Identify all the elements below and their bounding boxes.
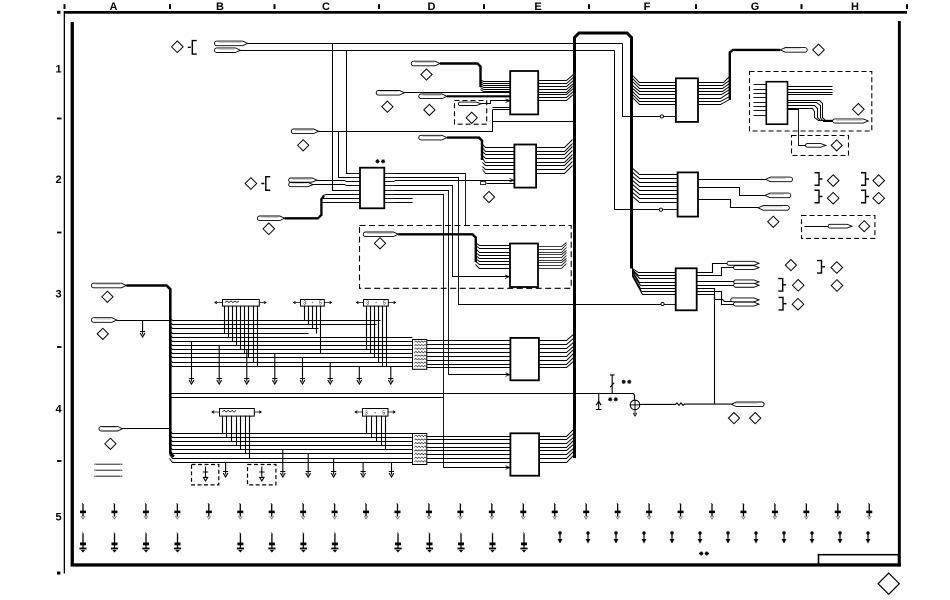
wire C2 pin2 to F3 stub [395, 178, 661, 305]
wire F3 to lug pair H3-1a [697, 264, 728, 273]
bracket-diamond pair H2-2 [861, 190, 869, 203]
E2 left wire fan [483, 145, 515, 148]
connector E5 [510, 433, 539, 475]
wire F2 to lug G2-a [699, 179, 766, 181]
F3 bottom stub with junction [661, 302, 664, 305]
diamond G1-a [813, 44, 825, 56]
connector block C3-b [356, 301, 364, 304]
wire drop column C2 [347, 51, 350, 174]
bracket-diamond pair G3-b [817, 261, 825, 274]
terminal lug G1-c [806, 144, 826, 148]
fuse symbol at F4 [596, 394, 602, 410]
wire A4 to harness [123, 428, 171, 430]
sensor circle at F4 [634, 394, 635, 401]
frame left thin border [64, 11, 65, 574]
splice block row3 [413, 340, 427, 370]
wire D1-b to E1 (thick) [447, 95, 510, 97]
column tick marks [64, 4, 66, 9]
wire under E1 to bus [493, 121, 575, 123]
ground symbol row 5a [82, 504, 83, 506]
bracket A2 [261, 177, 270, 191]
thick feeder wire to E1 fan [440, 64, 481, 88]
diamond F2 below [768, 216, 779, 227]
bus internal wire drop 1 [623, 44, 661, 117]
connector G1 inner [766, 82, 787, 125]
wire from dashed lug to E1 [482, 101, 511, 104]
diamond connector marker A2 [245, 178, 257, 190]
G1 bent wire group to lug [788, 101, 834, 121]
thick harness wire A3 [126, 286, 174, 457]
wire C2 pin5 to E4 bottom [395, 191, 511, 375]
svg-text:2: 2 [55, 174, 61, 186]
bracket-diamond pair G3-c [778, 279, 786, 292]
wire in G2 [805, 226, 829, 228]
terminal lug G2-a [766, 177, 793, 182]
connector F1 [676, 78, 698, 122]
dashed option box G2 [802, 216, 875, 239]
connector block C4 [355, 411, 363, 414]
E4 right fan to bus [539, 334, 575, 341]
diamond G4-b [750, 413, 761, 424]
E2 right fan to bus [537, 140, 573, 148]
diamond D1-c [424, 104, 435, 115]
wire F3 to lug H3-3b [697, 292, 735, 305]
terminal lug B2 double [289, 178, 317, 182]
svg-text:F: F [644, 1, 651, 13]
bracket B1 [188, 41, 197, 55]
diamond G3-a [785, 260, 796, 271]
connector F2 [678, 172, 698, 216]
terminal lug C1 [291, 129, 318, 134]
terminal lug pair H3-1 [727, 261, 759, 265]
terminal lug pair H3-3 [731, 298, 759, 302]
G1 inner right wires straight [788, 86, 833, 88]
E3 left wire fan [476, 243, 511, 246]
splice to E5 wires [427, 436, 511, 438]
connector block C3-a [293, 301, 301, 304]
corner diamond [878, 573, 899, 594]
terminal lug B1-a [215, 41, 248, 46]
diamond H3-d [831, 280, 843, 292]
wire B1-b to bus [241, 50, 615, 52]
diamond D1-a [421, 69, 432, 80]
terminal lug in G2 [828, 224, 852, 228]
wire F3 to lug H3-3a [697, 289, 732, 302]
wire C2 pin4 to E3 bottom [395, 186, 511, 277]
link symbol at F4 upper [610, 375, 615, 394]
C2 right pin stubs [385, 173, 395, 175]
wire F2 to lug G2-b [699, 188, 765, 196]
diamond A3-b [97, 328, 108, 339]
diamond D1-b [382, 101, 393, 112]
dashed ground box B5-a [192, 465, 219, 485]
terminal lug B2-b [257, 216, 284, 221]
wire C2 pin6 to E5 bottom [395, 195, 511, 468]
svg-text:3: 3 [55, 289, 61, 301]
row3 ground drops [189, 341, 194, 384]
svg-text:D: D [428, 1, 436, 13]
C2 label [375, 159, 385, 163]
terminal lug D2 feeder [419, 135, 447, 140]
dashed option box G1 [750, 72, 872, 132]
bus to F3 fan [633, 261, 676, 273]
terminal lug A3-b [91, 318, 116, 323]
legend lines A5 [96, 463, 121, 465]
bracket-diamond pair G3-e [779, 297, 787, 310]
svg-text:A: A [110, 1, 118, 13]
svg-text:H: H [851, 1, 859, 13]
long wire row4 to transistor [171, 393, 634, 395]
svg-text:E: E [534, 1, 541, 13]
frame top border [64, 11, 907, 14]
junction bus J/B outline [575, 33, 632, 458]
C2 bottom feed wires [323, 195, 361, 196]
terminal lug row3 dashed [363, 232, 398, 237]
terminal lug G4 [731, 402, 764, 407]
wire D1-a to E1 [405, 92, 511, 94]
diamond D2 [483, 191, 494, 202]
terminal lug G2-b [765, 193, 791, 198]
splice block row4 [413, 434, 427, 465]
bracket-diamond pair H2-1 [861, 173, 869, 186]
diamond G1-c [831, 140, 842, 151]
wire pair into E1 bottom [493, 107, 511, 109]
terminal lug B1-b [215, 48, 241, 53]
dashed ground box B5-b [248, 465, 276, 485]
terminal lug in dashed box D1 [458, 102, 481, 105]
diamond connector marker B1 [172, 41, 184, 53]
splice to E4 wires [427, 340, 511, 342]
G1 inner left stubs [754, 84, 767, 86]
wire F3 to lug H3-2b [697, 285, 735, 287]
bus to F1 fan [632, 75, 676, 83]
wire C2 pin8 stub [395, 202, 413, 204]
dashed option box D1 [455, 101, 487, 125]
row tick marks [57, 11, 60, 14]
diamond G4-a [728, 413, 739, 424]
connector E1 [510, 71, 538, 114]
row4 harness fan [170, 431, 413, 434]
bracket-diamond pair G2-2 [815, 190, 823, 203]
terminal lug G1-a [780, 48, 807, 53]
diamond row3 dashed [374, 238, 385, 249]
svg-text:C: C [322, 1, 330, 13]
connector E2 [514, 145, 536, 188]
F1 bottom stub with junction [660, 115, 663, 118]
E1 left wire fan [481, 80, 511, 82]
label row5 [699, 551, 709, 555]
tag on wire to E2 [481, 182, 486, 185]
svg-text:B: B [216, 1, 224, 13]
svg-text:G: G [751, 1, 760, 13]
terminal lug D1-c feeder [411, 61, 440, 66]
E5 right fan to bus [540, 429, 575, 437]
diamond in dashed box D1 [466, 112, 477, 123]
connector F3 [676, 268, 697, 310]
diamond B2-b [263, 223, 275, 235]
svg-text:5: 5 [383, 300, 386, 306]
long wire row4 short [171, 397, 444, 399]
F2 bottom stub with junction [659, 208, 662, 211]
frame thick right border [898, 21, 901, 567]
wire F3 to lug pair H3-1b [697, 268, 735, 276]
diamond A3-a [102, 291, 113, 302]
svg-text:5: 5 [55, 512, 61, 524]
diamond C1b [298, 140, 309, 151]
bus internal wire drop 2 [615, 51, 660, 210]
terminal lug D1-b [419, 94, 447, 99]
terminal lug A3-a [91, 283, 126, 288]
svg-text:4: 4 [55, 404, 62, 416]
wire F2 to lug G2-c [699, 200, 759, 208]
diamond in G2 [859, 221, 870, 232]
wires B2 to C2 box [317, 181, 361, 182]
terminal lug A4 [99, 426, 123, 431]
row3 harness fan [170, 318, 381, 321]
terminal lug G1-b [833, 119, 869, 123]
svg-text:1: 1 [55, 64, 61, 76]
connector block B3 [215, 301, 223, 304]
bus to F2 fan [632, 168, 678, 175]
connector block B4 [212, 411, 220, 414]
E3 right fan [539, 243, 567, 247]
bracket-diamond pair G2-1 [815, 173, 823, 186]
wire B1-a to bus [248, 43, 623, 45]
wire C2 pin3 to E2 [395, 180, 515, 182]
wire C1 to E1 [319, 110, 493, 132]
component C2 box [360, 168, 384, 209]
thick feeder to E2 fan [447, 138, 482, 160]
thick riser wire to lug G1 [730, 50, 781, 100]
C2 left pin stubs [350, 173, 361, 175]
diamond A4 [105, 438, 116, 449]
diamond G1-b [853, 104, 865, 116]
terminal lug D1-a [376, 91, 404, 96]
G1 drop to small dashed box [788, 110, 806, 146]
frame inner thick left border [71, 22, 74, 567]
dashed option box row3 [360, 226, 572, 289]
title block [819, 555, 899, 564]
ground symbol row 5b right group [558, 531, 561, 534]
wire F3 to lug H3-2a [697, 281, 735, 283]
thick wire B2-b to C2 [285, 196, 324, 219]
wire C2 pin7 stub [395, 198, 413, 200]
wire F4 to lug G4 [640, 403, 732, 405]
wire F3 drop to row4 [697, 295, 715, 405]
row4 ground drops [223, 462, 228, 477]
ground stub on wire A3-b [140, 321, 145, 337]
E1 right fan to bus [539, 74, 575, 81]
wire C2 pin1 drop D [395, 174, 466, 226]
terminal lug G2-c [758, 206, 789, 211]
terminal lug pair H3-2 [734, 280, 759, 284]
label F4 lower [608, 397, 618, 401]
label F4 upper [622, 380, 632, 384]
connector E3 [510, 244, 538, 288]
wire drop column C1 [333, 44, 350, 191]
wire drop from C1 wire [339, 132, 350, 178]
wire A3-b [117, 320, 171, 322]
frame thick bottom border [71, 563, 901, 566]
thick wire dashed-box to E3 [398, 234, 476, 262]
ground symbol row 5b left group [82, 533, 83, 535]
connector E4 [510, 338, 539, 380]
F1 right fan to riser [699, 77, 730, 83]
dashed option box G1 small [792, 136, 849, 156]
